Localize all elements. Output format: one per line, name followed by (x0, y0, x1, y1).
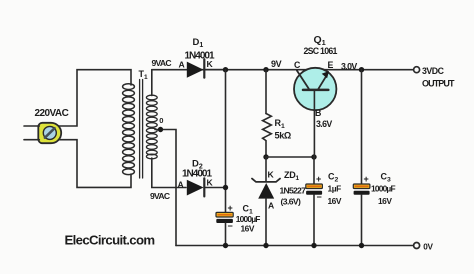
wire (D1 cathode to junction) (205, 69, 226, 71)
svg-text:16V: 16V (241, 224, 255, 234)
capacitor C1 (216, 212, 233, 245)
svg-text:1N5227: 1N5227 (280, 186, 307, 196)
svg-text:ElecCircuit.com: ElecCircuit.com (65, 233, 155, 248)
svg-text:9VAC: 9VAC (152, 58, 172, 68)
svg-text:K: K (207, 178, 214, 188)
svg-text:3VDC: 3VDC (422, 66, 445, 76)
resistor R1 (263, 114, 272, 141)
svg-text:1µF: 1µF (328, 184, 342, 194)
svg-text:A: A (268, 201, 274, 211)
junction (C3 / 0V rail) (359, 243, 364, 248)
svg-text:A: A (178, 180, 184, 190)
node 0 (center tap junction) (158, 127, 163, 132)
wire (D2 cathode to C1 branch) (205, 187, 226, 189)
svg-text:K: K (268, 170, 275, 180)
wire (bottom 0V rail) (176, 245, 413, 247)
capacitor C3 (353, 70, 370, 246)
terminal (0V output) (414, 243, 420, 249)
svg-text:1000µF: 1000µF (371, 184, 395, 194)
svg-text:9V: 9V (271, 59, 282, 69)
junction (top rail / R1 branch) (263, 67, 268, 72)
zener diode ZD1 (252, 157, 280, 246)
svg-text:9VAC: 9VAC (150, 191, 170, 201)
wire (secondary bottom to D2) (152, 158, 186, 188)
primary winding (123, 84, 135, 175)
svg-text:0: 0 (159, 116, 163, 125)
diode D1 (187, 59, 205, 78)
AC plug P1 (38, 123, 61, 143)
junction (R1 / ZD1 node) (263, 154, 268, 159)
wire (R1 top lead) (265, 70, 267, 114)
wire (R1 bottom lead to node) (265, 141, 267, 157)
wire (top rail: 9VAC through D1 to output) (152, 69, 414, 71)
capacitor C2 (306, 157, 323, 246)
junction (ZD1 / 0V rail) (263, 243, 268, 248)
wire (center tap to 0V rail) (155, 130, 176, 246)
svg-text:5kΩ: 5kΩ (275, 131, 291, 141)
svg-text:A: A (179, 60, 185, 70)
terminal (3VDC output) (414, 67, 420, 73)
wire (zener node to base node) (266, 156, 314, 158)
junction (top rail / C1 branch) (223, 67, 228, 72)
wire (bottom prong of plug) (24, 139, 39, 141)
svg-text:E: E (328, 60, 334, 70)
svg-text:(3.6V): (3.6V) (281, 197, 302, 207)
wire (plug to transformer primary bottom) (59, 140, 132, 188)
svg-text:B: B (315, 108, 321, 118)
svg-text:K: K (207, 59, 214, 69)
transformer T1 (123, 80, 158, 179)
svg-text:C2: C2 (328, 172, 339, 184)
wire (C1 branch vertical) (225, 70, 227, 212)
diode D2 (187, 178, 205, 196)
junction (C2 / 0V rail) (311, 243, 316, 248)
svg-text:3.6V: 3.6V (316, 119, 332, 129)
junction (base / C2 node) (311, 154, 316, 159)
svg-text:16V: 16V (328, 196, 342, 206)
svg-text:−: − (228, 221, 233, 231)
svg-text:16V: 16V (378, 196, 392, 206)
svg-text:0V: 0V (423, 243, 433, 252)
svg-text:3.0V: 3.0V (341, 61, 357, 71)
wire (secondary top to 9VAC rail) (151, 70, 153, 96)
svg-text:220VAC: 220VAC (35, 108, 69, 119)
transistor Q1 (294, 68, 336, 110)
svg-text:2SC 1061: 2SC 1061 (304, 46, 338, 56)
svg-text:R1: R1 (275, 118, 286, 130)
svg-text:+: + (228, 203, 233, 213)
svg-text:1000µF: 1000µF (236, 214, 260, 224)
junction (top rail / C3 branch) (359, 67, 364, 72)
svg-text:ZD1: ZD1 (284, 170, 299, 182)
junction (D2 cathode / C1 branch) (223, 185, 228, 190)
wire (plug to transformer primary top) (59, 70, 132, 126)
svg-text:−: − (317, 192, 322, 202)
wire (base lead down to node) (313, 90, 315, 157)
svg-text:D1: D1 (193, 37, 204, 49)
junction (C1 / 0V rail) (223, 243, 228, 248)
svg-text:OUTPUT: OUTPUT (422, 79, 455, 89)
secondary winding (146, 95, 157, 159)
svg-text:C: C (294, 60, 301, 70)
wire (top prong of plug) (24, 125, 39, 127)
svg-text:+: + (316, 174, 321, 184)
core (140, 80, 143, 179)
svg-text:+: + (364, 174, 369, 184)
svg-text:C3: C3 (381, 172, 392, 184)
